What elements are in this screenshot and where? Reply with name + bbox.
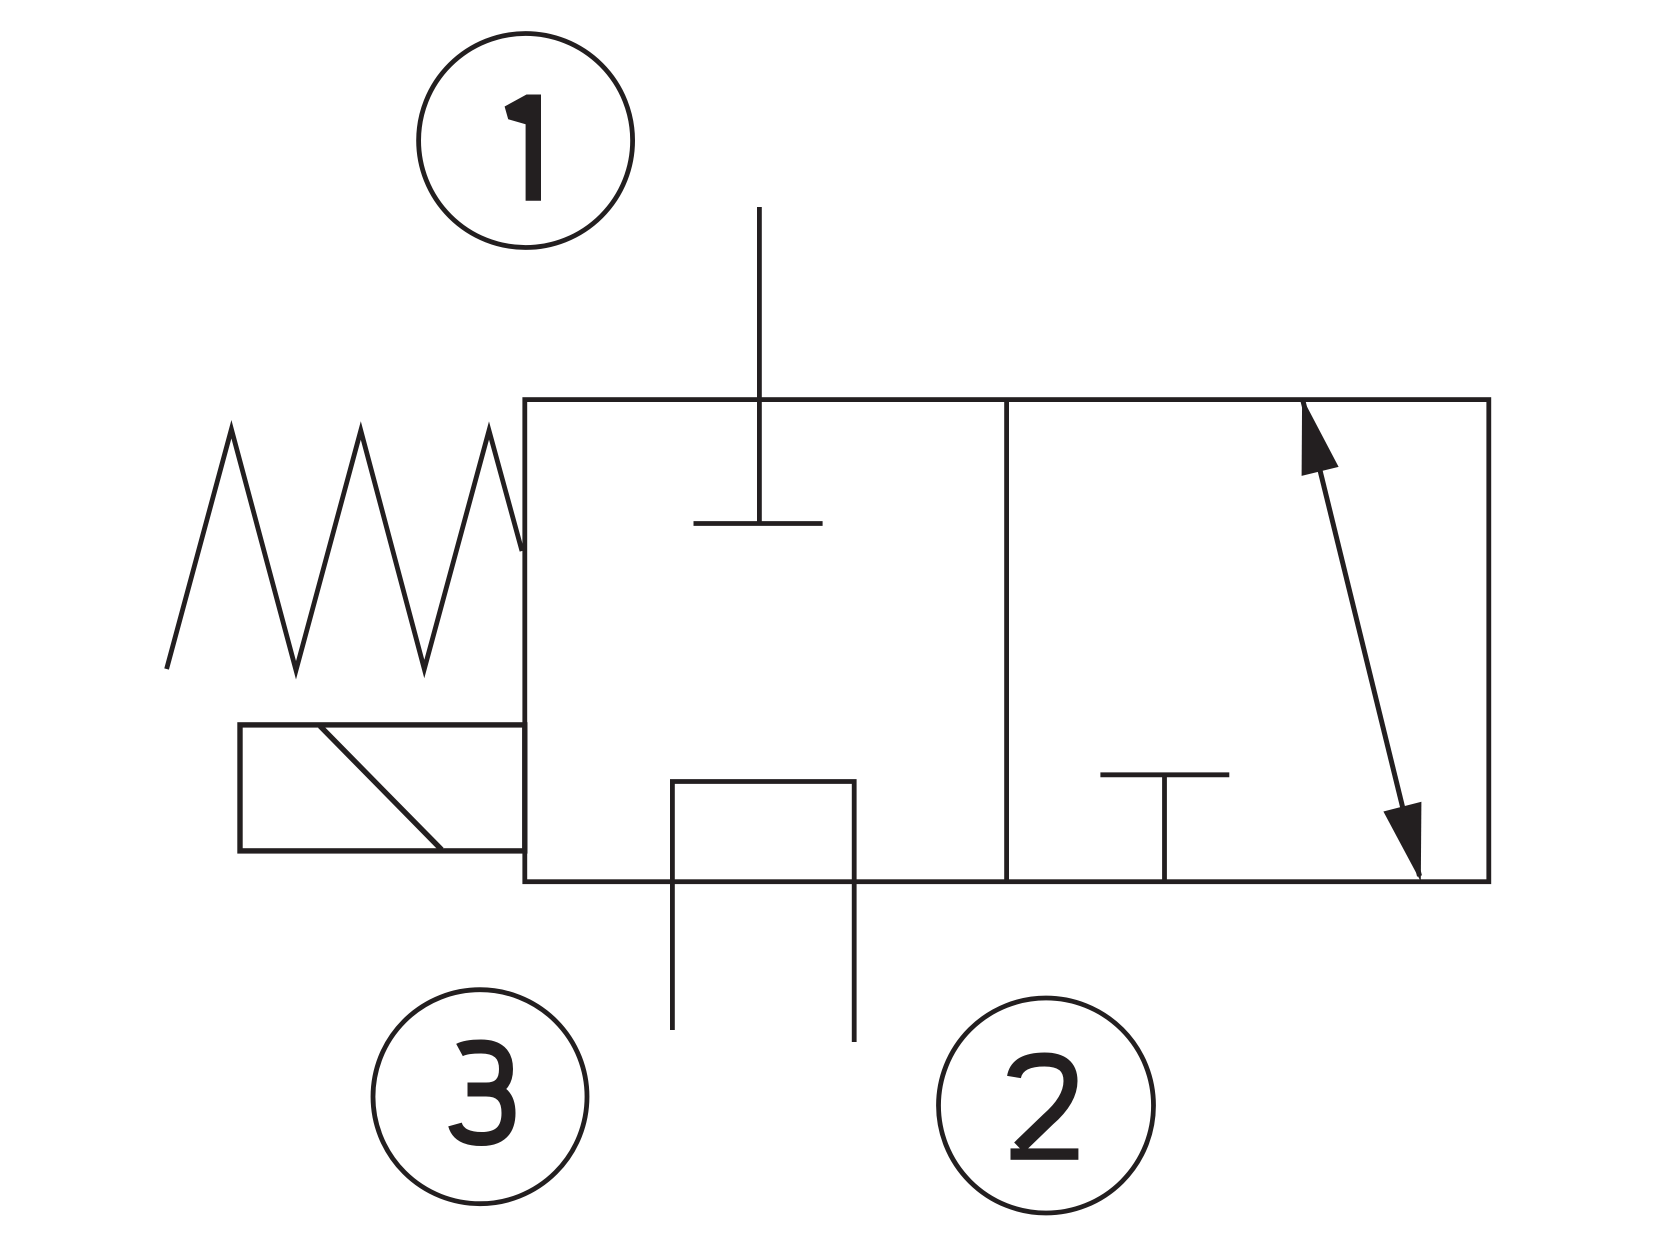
- port label circle 2: [939, 998, 1154, 1213]
- blocked port 1 seat crossbar: [694, 521, 823, 526]
- return spring: [167, 429, 522, 670]
- chamber divider: [1004, 400, 1009, 882]
- port label circle 3: [373, 990, 587, 1204]
- port 1 pilot line: [757, 207, 762, 524]
- blocked ports 3-2 channel (left chamber): [672, 782, 854, 1043]
- port label circle 1: [419, 34, 633, 248]
- port 2 seat T (right chamber): [1100, 775, 1229, 882]
- solenoid coil: [240, 725, 525, 851]
- valve body frame: [525, 400, 1489, 882]
- flow path arrow (right chamber): [1302, 397, 1422, 881]
